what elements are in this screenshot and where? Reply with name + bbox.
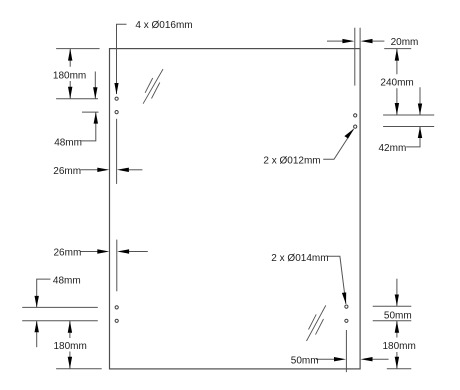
glass mark top-left (143, 69, 163, 104)
extension line hole column bottom-right (345, 330, 347, 372)
svg-text:26mm: 26mm (54, 248, 82, 259)
extension line hole row 1 bottom-left (22, 306, 98, 308)
dimension 42mm top-right (406, 87, 422, 147)
dimension 240mm top-right (384, 49, 411, 115)
hole bottom-left 1 (115, 306, 118, 309)
svg-text:180mm: 180mm (383, 341, 416, 352)
extension line hole row 2 top-right (383, 126, 434, 128)
dimension 26mm top-left (81, 119, 143, 184)
hole bottom-left 2 (115, 319, 118, 322)
leader 2 x O014mm (327, 256, 346, 304)
svg-text:48mm: 48mm (53, 276, 81, 287)
extension line hole row 2 bottom-left (22, 320, 98, 322)
svg-text:2 x Ø014mm: 2 x Ø014mm (271, 253, 328, 264)
svg-text:20mm: 20mm (391, 37, 419, 48)
svg-text:50mm: 50mm (291, 355, 319, 366)
hole top-left 1 (115, 97, 118, 100)
svg-text:42mm: 42mm (379, 143, 407, 154)
dimension 180mm bottom-left (56, 321, 102, 369)
hole top-right 1 (354, 114, 357, 117)
svg-text:180mm: 180mm (54, 341, 87, 352)
leader 2 x O012mm (323, 129, 354, 160)
dimension 50mm bottom-right (373, 279, 412, 321)
hole bottom-right 2 (345, 319, 348, 322)
dimension 50mm bottom-center (316, 357, 389, 361)
dimension 20mm top-right (327, 28, 384, 86)
hole top-left 2 (115, 111, 118, 114)
leader 4 x O016mm (114, 24, 126, 94)
svg-text:180mm: 180mm (53, 71, 86, 82)
svg-text:26mm: 26mm (53, 166, 81, 177)
dimension 180mm bottom-right (387, 321, 412, 369)
hole bottom-right 1 (345, 305, 348, 308)
svg-text:4 x Ø016mm: 4 x Ø016mm (135, 20, 192, 31)
svg-text:48mm: 48mm (54, 137, 82, 148)
svg-text:240mm: 240mm (380, 78, 413, 89)
dimension 180mm top-left (56, 49, 100, 99)
panel outline (110, 49, 361, 369)
glass mark bottom-right (307, 305, 326, 341)
extension line hole row 1 top-left (56, 98, 98, 100)
extension line hole row 1 top-right (383, 114, 434, 116)
dimension 26mm bottom-left (81, 240, 148, 292)
dimension 48mm top-left (81, 72, 99, 141)
hole top-right 2 (354, 125, 357, 128)
svg-text:50mm: 50mm (384, 310, 412, 321)
extension line hole row 2 top-left (82, 111, 99, 113)
dimension 48mm bottom-left (35, 279, 51, 347)
svg-text:2 x Ø012mm: 2 x Ø012mm (263, 156, 320, 167)
